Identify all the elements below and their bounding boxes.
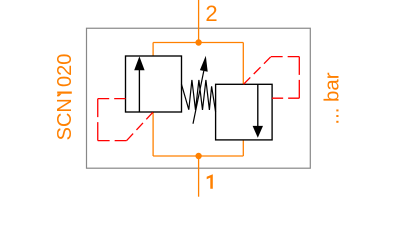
enclosure frame [87, 28, 311, 168]
valve V1 flow arrow up [134, 56, 144, 70]
adjustment arrow head [200, 56, 208, 72]
spring [181, 80, 215, 112]
valve V1 body [126, 56, 182, 112]
pilot line right diagonal segment [244, 57, 272, 85]
wire top bus [153, 42, 243, 44]
pilot line right bottom segment [272, 97, 299, 99]
wire riser from valve V2 bottom [242, 140, 244, 156]
pilot line right top segment [271, 56, 299, 58]
valve V2 flow line [257, 84, 259, 128]
label SCN1020 digit 1 flag [57, 94, 62, 97]
junction top node [195, 39, 201, 45]
wire riser from valve V1 bottom [152, 112, 154, 156]
pilot line left vertical segment [97, 99, 99, 141]
valve V2 body [216, 84, 273, 140]
wire drop to valve V1 top [152, 43, 154, 57]
wire port 1 stub [198, 156, 200, 197]
valve V1 flow line [138, 68, 140, 112]
svg-text:SCN1020: SCN1020 [54, 54, 76, 141]
pilot line right vertical segment [298, 57, 300, 99]
wire port 2 stub [198, 0, 200, 43]
pilot line left diagonal segment [127, 112, 154, 141]
pilot line left bottom segment [98, 140, 127, 142]
svg-text:2: 2 [205, 1, 217, 26]
label SCN1020 digit-1 foot patch [56, 87, 73, 97]
adjustment arrow shaft [193, 71, 204, 124]
valve V2 flow arrow down [253, 126, 263, 138]
wire drop to valve V2 top [242, 43, 244, 85]
label SCN1020 digit 1 redrawn [57, 92, 72, 94]
svg-text:... bar: ... bar [322, 72, 344, 124]
pilot line left top segment [98, 98, 126, 100]
junction bottom node [195, 153, 201, 159]
node label 1 [207, 174, 213, 189]
wire bottom bus [153, 155, 243, 157]
